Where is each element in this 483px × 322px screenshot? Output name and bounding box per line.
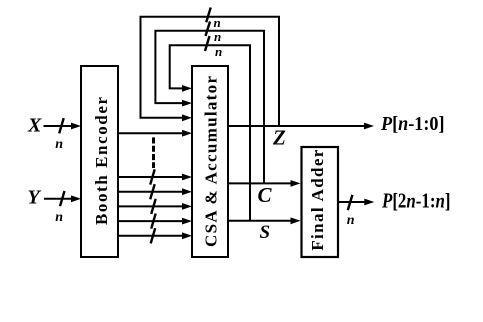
wire 5 slash — [151, 214, 156, 229]
Z feedback arrowhead — [182, 114, 192, 121]
svg-text:n: n — [55, 210, 63, 225]
svg-text:n: n — [214, 15, 221, 30]
booth to CSA wire 2 — [118, 176, 183, 178]
svg-text:S: S — [260, 222, 271, 243]
S feedback arrowhead — [182, 85, 192, 92]
C feedback loop wire — [155, 31, 264, 184]
X bus slash — [59, 118, 64, 133]
svg-text:n: n — [215, 44, 222, 59]
Z feedback loop wire — [141, 17, 280, 126]
CSA accumulator box — [192, 66, 228, 257]
svg-text:CSA & Accumulator: CSA & Accumulator — [202, 76, 221, 247]
booth to CSA arrowhead 5 — [182, 218, 192, 225]
booth to CSA arrowhead 3 — [182, 188, 192, 195]
Z output wire — [228, 125, 365, 127]
S feedback slash — [205, 36, 210, 51]
Z feedback slash — [206, 8, 211, 23]
S arrowhead — [291, 217, 301, 224]
svg-text:n: n — [214, 29, 221, 44]
C arrowhead — [291, 180, 301, 187]
Y bus slash — [60, 191, 65, 206]
booth to CSA arrowhead 4 — [182, 203, 192, 210]
svg-text:n: n — [55, 137, 63, 152]
svg-text:Booth Encoder: Booth Encoder — [92, 97, 111, 225]
final output slash — [348, 195, 353, 210]
booth to CSA wire 5 — [118, 220, 183, 222]
svg-text:Final Adder: Final Adder — [308, 149, 327, 250]
svg-text:P[n-1:0]: P[n-1:0] — [380, 113, 444, 135]
wire 3 slash — [150, 184, 155, 199]
booth to CSA arrowhead 1 — [182, 130, 192, 137]
C feedback arrowhead — [182, 100, 192, 107]
dashed ellipsis line — [152, 137, 155, 168]
wire 6 slash — [151, 228, 156, 243]
final adder output wire — [338, 201, 365, 203]
svg-text:Z: Z — [272, 126, 286, 150]
svg-text:Y: Y — [28, 187, 42, 209]
wire 4 slash — [151, 199, 156, 214]
svg-text:n: n — [347, 213, 355, 228]
Y input arrowhead — [71, 195, 81, 202]
C wire CSA to final adder — [228, 182, 291, 184]
booth to CSA wire 6 — [118, 235, 183, 237]
Z output arrowhead — [364, 123, 374, 130]
X input arrowhead — [71, 123, 81, 130]
wire 2 slash — [150, 169, 155, 184]
final output arrowhead — [364, 199, 374, 206]
S feedback loop wire — [170, 45, 250, 221]
Y input wire — [44, 198, 72, 200]
svg-text:X: X — [27, 115, 42, 137]
booth to CSA wire 4 — [118, 205, 183, 207]
svg-text:P[2n-1:n]: P[2n-1:n] — [381, 189, 450, 213]
X input wire — [44, 125, 73, 127]
booth to CSA arrowhead 6 — [182, 232, 192, 239]
booth to CSA wire 3 — [118, 191, 183, 193]
final adder box — [302, 147, 339, 257]
C feedback slash — [206, 22, 211, 37]
svg-text:C: C — [258, 183, 273, 207]
booth to CSA arrowhead 2 — [182, 174, 192, 181]
booth encoder box — [81, 66, 118, 257]
S wire CSA to final adder — [228, 220, 291, 222]
booth to CSA wire 1 — [118, 132, 183, 134]
